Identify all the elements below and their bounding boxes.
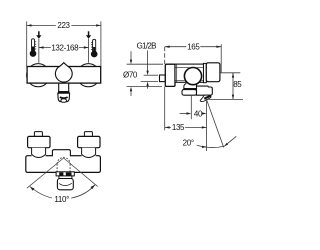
knob onion front [55, 63, 72, 82]
spout flange dark band [59, 172, 71, 176]
spout joint dark line [184, 88, 197, 90]
dim 165 arrowhead left [165, 46, 170, 48]
dim 85 dimension line [232, 73, 234, 99]
hot water bold arrow left [38, 31, 40, 35]
dim 223 text [56, 22, 72, 30]
spout cup inner arc [59, 183, 72, 185]
spout pipe front [59, 83, 69, 91]
20 degree arc left arrowhead [202, 146, 207, 148]
dim 223 arrowhead left [27, 24, 32, 26]
ring at tube end [204, 63, 207, 82]
dim 85 bottom extension line [205, 98, 243, 100]
dim 132-168 arrowhead right [84, 46, 89, 48]
dim 85 top extension line [220, 72, 240, 74]
dim 40 left arrow with stem [180, 113, 187, 115]
Ø70 bottom arrow line [130, 91, 132, 97]
thermometer icon right [91, 39, 98, 57]
G1/2B bottom arrow line [147, 86, 149, 89]
left union pipe [34, 132, 42, 137]
thermometer icon left [30, 39, 37, 57]
dim 135 dimension line [165, 126, 207, 128]
dim 165 text [186, 43, 200, 50]
inlet nipple side [160, 75, 166, 82]
dim 85 arrowhead bottom [232, 95, 234, 100]
flange bottom extension line [127, 86, 162, 88]
body tube side [175, 64, 204, 82]
body top edge segments [46, 155, 53, 157]
hidden knob dome dashed [57, 158, 70, 165]
svg-text:135: 135 [172, 123, 185, 132]
dim 165 extension line right (down to handle axis) [220, 44, 222, 73]
wall dashed line [164, 47, 166, 64]
flange top extension line [127, 63, 163, 65]
spout collar bottom view [59, 176, 72, 179]
110 degree arc [30, 185, 95, 199]
flange joint line [176, 65, 178, 83]
20 degree angled line [207, 100, 224, 147]
union ellipse left [27, 64, 50, 87]
spout bracket [184, 83, 197, 89]
dim 135 text [171, 124, 185, 131]
body bottom view fill [26, 156, 101, 173]
nipple top extension line [144, 74, 158, 76]
dim 132-168 arrowhead left [39, 46, 44, 48]
svg-text:40: 40 [194, 109, 203, 118]
dim 40 right arrowhead [202, 112, 207, 114]
swivel ray right [64, 158, 98, 186]
110 arc arrowhead right [91, 185, 96, 189]
Ø70 top arrow line [130, 51, 132, 60]
dim 223 dimension line [27, 24, 101, 26]
body outline with gaps [26, 156, 101, 173]
aerator cup front [58, 93, 70, 102]
outlet beak side [200, 95, 211, 101]
dim 223 arrowhead right [96, 24, 101, 26]
wall flange side [165, 64, 175, 86]
center block [52, 150, 70, 157]
temperature handle side [206, 63, 220, 82]
left union nut [28, 136, 50, 147]
left union dome [32, 148, 46, 158]
dim 132-168 extension line right [88, 39, 90, 63]
mixer body front [27, 67, 101, 84]
spout joint dark band front [58, 91, 69, 93]
dim 135 arrowhead left [165, 126, 170, 128]
dim 165 arrowhead right [216, 46, 221, 48]
body tube inner line bottom [176, 79, 204, 81]
svg-text:Ø70: Ø70 [123, 71, 138, 80]
spout cup bottom view [57, 179, 73, 190]
G1/2B top arrow line [147, 51, 149, 72]
dim 223 extension line right [100, 21, 102, 66]
nipple bottom extension line [141, 81, 158, 83]
dim 85 text [234, 80, 243, 87]
dim 132-168 dimension line [39, 47, 88, 49]
20 degree vertical reference line [206, 101, 208, 151]
wall line lower part / dim 135 extension [164, 87, 166, 131]
dim 132-168 text [51, 44, 79, 51]
20 degree arc right tail [224, 136, 236, 146]
110 degree text [52, 195, 71, 203]
svg-text:223: 223 [57, 21, 70, 30]
hot water bold arrow right [88, 31, 90, 35]
20 degree arc right arrowhead [224, 143, 228, 147]
dim 135 arrowhead right [202, 126, 207, 128]
right union pipe [84, 132, 92, 137]
20 degree arc left segment [197, 145, 224, 147]
svg-text:110°: 110° [54, 195, 69, 204]
spout flange bar bottom view [56, 172, 74, 176]
dim 132-168 extension line left [38, 39, 40, 63]
dim 40 left extension line (outlet axis) [190, 96, 192, 119]
dim 85 arrowhead top [232, 73, 234, 78]
svg-text:G1/2B: G1/2B [137, 42, 157, 51]
aerator dark band side [204, 96, 211, 99]
union ellipse right [77, 64, 100, 87]
dim 223 extension line left [26, 21, 28, 66]
aerator inner dark arc front [60, 97, 68, 98]
dim 165 dimension line [165, 46, 221, 48]
spout bar side [182, 90, 197, 96]
svg-text:165: 165 [187, 42, 200, 51]
svg-text:85: 85 [233, 80, 242, 89]
knob circle side [184, 68, 201, 85]
swivel ray left [27, 158, 64, 188]
aerator outlet ellipse front [61, 99, 67, 103]
right union dome [82, 148, 96, 158]
spout head side [197, 86, 213, 95]
svg-text:20°: 20° [183, 138, 194, 147]
svg-text:132-168: 132-168 [51, 43, 79, 52]
right union nut [78, 136, 100, 147]
body tube inner line top [176, 67, 204, 69]
110 arc arrowhead left [30, 187, 35, 191]
